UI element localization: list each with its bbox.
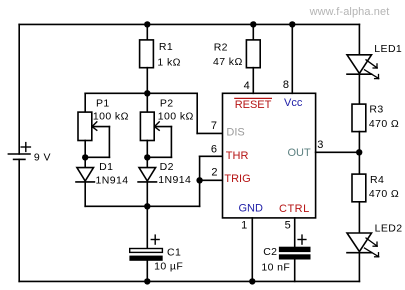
svg-text:P1: P1 [96,97,110,109]
svg-text:D2: D2 [160,161,174,173]
svg-text:9 V: 9 V [34,151,51,163]
svg-text:R2: R2 [214,41,228,53]
svg-text:470 Ω: 470 Ω [369,188,399,200]
svg-text:OUT: OUT [288,147,312,159]
svg-text:2: 2 [211,167,217,179]
svg-text:P2: P2 [160,98,174,110]
svg-text:1: 1 [241,220,247,232]
svg-text:4: 4 [244,80,250,92]
svg-text:THR: THR [226,150,249,162]
svg-text:RESET: RESET [235,99,272,111]
svg-text:DIS: DIS [226,126,244,138]
svg-text:TRIG: TRIG [224,173,250,185]
svg-text:R1: R1 [159,41,173,53]
svg-text:5: 5 [285,220,291,232]
svg-text:LED1: LED1 [374,43,402,55]
svg-text:10 µF: 10 µF [154,261,183,273]
svg-text:LED2: LED2 [375,222,403,234]
svg-text:6: 6 [211,144,217,156]
svg-text:Vcc: Vcc [284,97,303,109]
svg-text:470 Ω: 470 Ω [369,118,399,130]
svg-text:8: 8 [283,79,289,91]
svg-text:100 kΩ: 100 kΩ [93,111,129,123]
svg-text:C2: C2 [263,246,277,258]
svg-text:www.f-alpha.net: www.f-alpha.net [309,6,390,18]
svg-text:R3: R3 [369,103,383,115]
svg-text:GND: GND [239,202,264,214]
svg-text:1N914: 1N914 [158,174,191,186]
svg-text:47 kΩ: 47 kΩ [213,56,243,68]
svg-text:7: 7 [211,120,217,132]
svg-text:CTRL: CTRL [279,203,310,215]
svg-text:1N914: 1N914 [96,175,129,187]
svg-text:3: 3 [317,139,323,151]
svg-text:D1: D1 [99,161,113,173]
svg-text:10 nF: 10 nF [261,262,290,274]
svg-text:1 kΩ: 1 kΩ [157,56,180,68]
svg-text:R4: R4 [370,174,384,186]
svg-text:100 kΩ: 100 kΩ [158,110,194,122]
svg-text:C1: C1 [167,246,181,258]
